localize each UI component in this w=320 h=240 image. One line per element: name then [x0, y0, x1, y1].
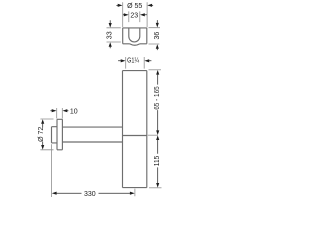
dimension 36 arrows [156, 23, 159, 49]
wall pipe stub [52, 127, 58, 143]
svg-text:Ø 55: Ø 55 [127, 3, 142, 10]
dimension 33 arrows [109, 23, 112, 47]
dimension G1 1/4 arrows [121, 59, 150, 62]
dimension Ø55 extension lines [123, 2, 147, 27]
svg-text:115: 115 [154, 156, 161, 166]
svg-text:G1¼: G1¼ [127, 58, 139, 65]
dimension 10 extension lines [57, 108, 63, 119]
U cutout [129, 28, 140, 42]
body joint line [123, 135, 147, 137]
dimension 23 extension lines [129, 11, 140, 22]
330 left extension line (wall plane) [51, 144, 53, 197]
dimension Ø72 line [42, 123, 44, 147]
dimension 330 line [56, 192, 131, 194]
dimension 23 arrows [124, 13, 145, 16]
dimension Ø72 extension lines [40, 119, 53, 150]
right extension line at body bottom [149, 187, 162, 189]
dimension Ø72 arrows [41, 119, 44, 149]
wall escutcheon plate [57, 119, 62, 150]
horizontal outlet pipe [62, 127, 122, 142]
dimension 330 arrows [52, 192, 135, 195]
dimension G1 1/4 extension lines [126, 57, 145, 69]
dimension 36 extension lines [149, 28, 161, 44]
dimension 33 extension lines [107, 28, 121, 42]
svg-text:65 - 165: 65 - 165 [154, 86, 161, 110]
dimension 115 line [157, 139, 159, 184]
svg-text:33: 33 [107, 31, 114, 39]
dimension 65-165 line [157, 74, 159, 132]
side view trap body [52, 71, 147, 188]
dimension 65-165 arrows [156, 70, 159, 135]
dimension 10 arrows [52, 109, 68, 112]
bottom bulge arc [130, 44, 141, 45]
svg-text:23: 23 [130, 12, 138, 19]
right extension line at body top [149, 69, 162, 71]
svg-text:330: 330 [84, 191, 96, 198]
svg-text:Ø 72: Ø 72 [38, 127, 45, 142]
right extension line at body joint [148, 134, 158, 136]
top view escutcheon outline [123, 28, 147, 45]
dimension Ø55 arrows [118, 4, 152, 7]
dimension 115 arrows [156, 135, 159, 187]
330 right extension line (body centre) [134, 189, 136, 197]
svg-text:36: 36 [154, 32, 161, 40]
svg-text:10: 10 [70, 108, 78, 115]
